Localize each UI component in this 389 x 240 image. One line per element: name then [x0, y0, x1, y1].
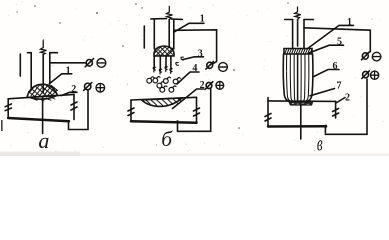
plate top line [8, 94, 74, 98]
svg-text:4: 4 [192, 63, 197, 74]
terminal minus circle [219, 63, 228, 72]
thick coating barrel body with ribs [283, 54, 313, 101]
terminal o-slash (minus side) [86, 60, 92, 67]
svg-text:1: 1 [347, 17, 352, 28]
electrode rod centre inside barrel [297, 54, 299, 101]
terminal o-slash (plus side) [85, 83, 91, 90]
rod top ticks [285, 19, 314, 21]
plate bottom line [268, 125, 326, 128]
molten tip dark pool on plate [288, 101, 314, 105]
terminal minus circle [97, 59, 106, 68]
electrode tube right line [49, 53, 51, 84]
svg-text:2: 2 [345, 93, 350, 104]
plate bottom line [8, 118, 69, 121]
work lead wire step [178, 89, 211, 131]
label 1 underline and leader [174, 23, 204, 32]
work lead wire step [325, 79, 367, 134]
coating collar hatched band [284, 49, 312, 55]
white specks in dark pool [292, 103, 309, 104]
svg-text:б: б [161, 127, 173, 151]
terminal o-slash (minus) [207, 62, 213, 68]
svg-text:а: а [38, 128, 49, 153]
plate left edge with break marks [130, 100, 132, 121]
svg-text:в: в [317, 131, 323, 156]
label 2 underline and leader [62, 92, 78, 95]
electrode centre line with break squiggle [167, 6, 173, 19]
wire from electrode to minus terminal [174, 30, 217, 64]
label 7 leader [310, 89, 335, 96]
electrode wire centre line with break squiggle [40, 41, 46, 55]
plate top line [131, 97, 197, 100]
label 2 leader [173, 89, 204, 109]
falling droplets [147, 77, 181, 93]
label 2 leader [336, 98, 345, 104]
edge mark bottom-left [1, 120, 3, 131]
label 3 underline and leader [183, 57, 204, 60]
bottom edge smudge [0, 152, 80, 157]
label 6 underline and leader [314, 70, 339, 77]
svg-text:1: 1 [200, 14, 205, 25]
terminal o-slash (minus) [362, 53, 368, 59]
plate left edge with break marks [267, 98, 269, 127]
label 4 underline and leader [177, 72, 199, 84]
svg-text:1: 1 [66, 65, 71, 76]
coating disc at tube tip (cross-hatched dome) [154, 46, 174, 56]
centre line through plate [42, 96, 44, 134]
scan grain [8, 2, 383, 152]
svg-text:7: 7 [337, 81, 342, 92]
centre line below plate [300, 106, 302, 139]
wire from electrode to minus terminal [50, 62, 86, 64]
rod right line [303, 20, 305, 49]
tube left line [153, 19, 155, 49]
plate right edge with break marks [335, 101, 337, 118]
terminal o-slash (plus) [363, 71, 369, 77]
terminal plus circle [216, 82, 224, 90]
junction dot on plate bottom [176, 120, 179, 123]
terminal o-slash (plus) [206, 82, 212, 88]
molten drops hanging lines [154, 56, 171, 71]
plate top line [268, 100, 336, 103]
tube top ticks [151, 18, 182, 21]
plate bottom line [131, 121, 197, 123]
electrode centre line with break squiggle [295, 7, 301, 19]
holder stroke [143, 26, 145, 48]
label 1 underline and leader [307, 25, 354, 49]
svg-text:2: 2 [200, 80, 205, 91]
weld pool dome cross-hatched [27, 84, 58, 97]
scan noise specks [16, 2, 288, 129]
work lead wire step [69, 91, 89, 130]
tube right line [173, 19, 175, 49]
svg-text:2: 2 [71, 84, 76, 95]
weld pool shallow lens hatched [142, 98, 182, 106]
plate right edge with break marks [196, 97, 198, 122]
terminal plus circle [96, 83, 105, 92]
plate right edge with break marks [73, 94, 75, 119]
tube top ticks [28, 52, 58, 54]
holder stroke left of electrode [19, 54, 21, 76]
small curls at line tips [153, 57, 183, 74]
label 1 underline and leader [49, 74, 72, 84]
plate left edge with break marks [7, 99, 9, 118]
terminal minus circle [372, 52, 381, 61]
terminal plus circle [371, 71, 379, 79]
svg-text:6: 6 [333, 61, 338, 72]
svg-text:5: 5 [337, 37, 342, 48]
wire from electrode to minus terminal [304, 28, 370, 54]
junction dot [324, 125, 327, 128]
svg-text:3: 3 [198, 48, 203, 59]
label 5 underline and leader [309, 45, 344, 53]
electrode tube left line [30, 53, 32, 88]
rod left line [292, 20, 294, 49]
